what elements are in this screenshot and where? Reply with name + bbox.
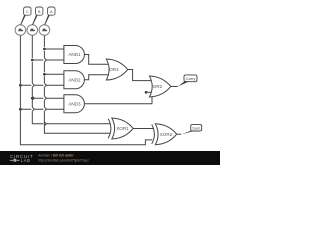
svg-text:LAB: LAB (21, 158, 31, 163)
svg-text:Aurelien / 3bit full adder: Aurelien / 3bit full adder (38, 154, 74, 158)
svg-text:http://circuitlab.com/c64T5p6x: http://circuitlab.com/c64T5p6xThqe/ (38, 158, 89, 162)
